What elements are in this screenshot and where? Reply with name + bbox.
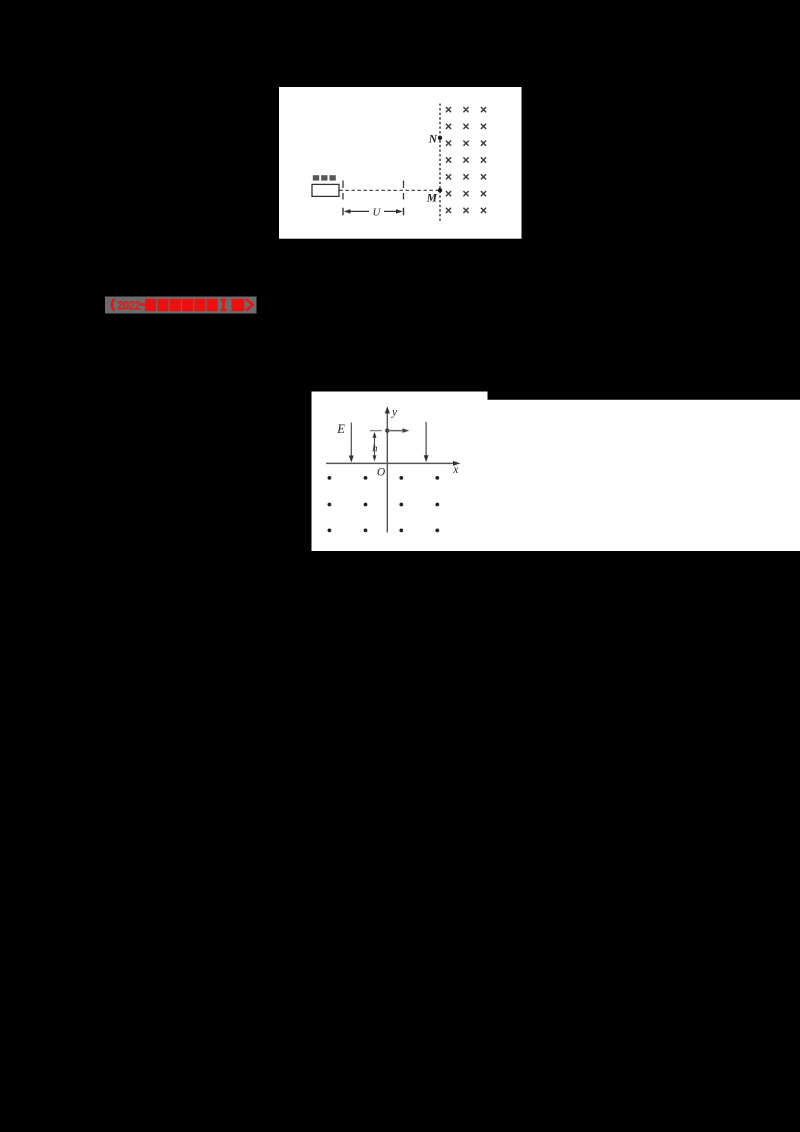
panel 2 : E field / B field coordinate diagram (311, 391, 800, 552)
panel background (279, 87, 522, 239)
numeral I (Roman) (221, 299, 227, 311)
panel background with notched top-right corner (312, 392, 800, 552)
svg-text:2022: 2022 (117, 300, 141, 312)
grey highlight background (105, 297, 257, 314)
U dimension arrows (346, 210, 370, 212)
svg-text:U: U (373, 207, 382, 219)
y axis (386, 408, 388, 533)
dashed beam line (340, 189, 440, 191)
fullwidth close bracket chevron (246, 299, 252, 310)
ion source label (离子源 glyph blobs) (313, 175, 336, 180)
fullwidth open paren (112, 299, 114, 311)
E field arrow right (425, 422, 427, 457)
E field arrow left (350, 423, 352, 458)
svg-text:N: N (428, 133, 438, 145)
tick mark left (342, 181, 344, 200)
h dimension top tick (370, 430, 382, 432)
node M dot (438, 188, 442, 192)
U dimension end bars (343, 208, 404, 216)
svg-text:E: E (336, 422, 345, 436)
svg-text:h: h (372, 444, 377, 455)
magnetic field x-marks (446, 107, 486, 213)
velocity arrow (387, 430, 404, 432)
particle dot (385, 428, 389, 432)
x axis (326, 462, 457, 464)
magnetic field dots (out of page) (328, 476, 440, 532)
panel 1 : ion source / magnetic field diagram (279, 87, 522, 239)
svg-text:x: x (452, 464, 459, 476)
CJK char blobs 新高考全国 (145, 299, 218, 311)
boundary dotted line (field edge) (439, 104, 441, 222)
ion source box (312, 184, 339, 196)
svg-text:O: O (377, 467, 386, 479)
middle dot (141, 303, 145, 306)
h dimension double arrow (374, 435, 376, 458)
red exam-source tag strip (105, 296, 257, 314)
svg-text:M: M (426, 192, 438, 204)
tick mark right (403, 181, 405, 200)
node N dot (438, 136, 442, 140)
svg-text:y: y (391, 406, 398, 418)
CJK char blob 卷 (232, 299, 245, 311)
